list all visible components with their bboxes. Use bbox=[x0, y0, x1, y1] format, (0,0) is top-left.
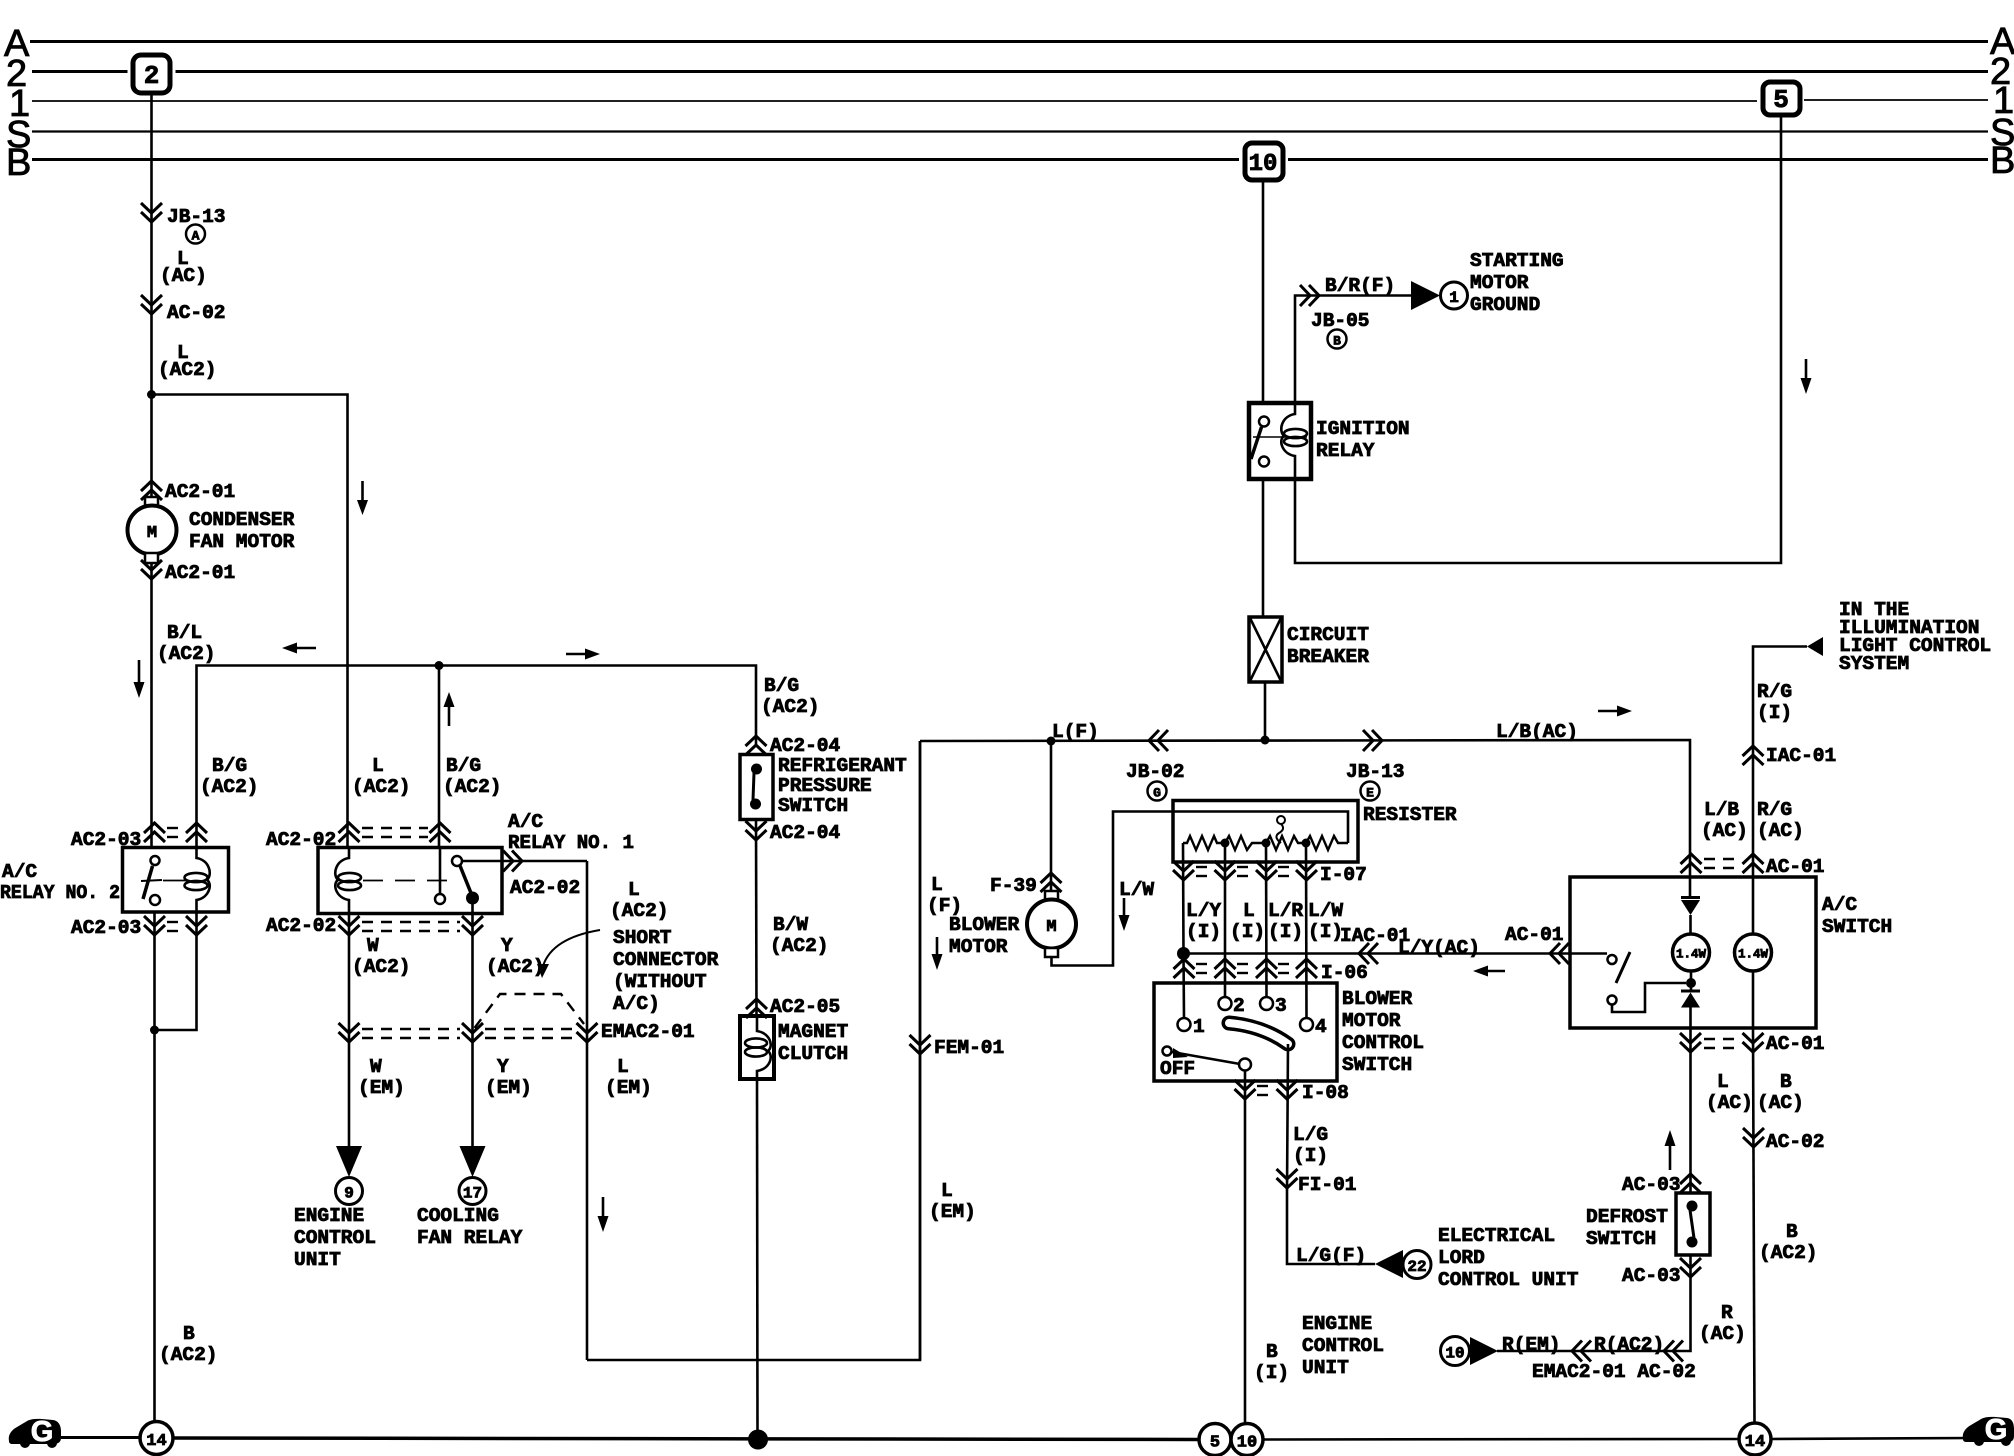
svg-text:L: L bbox=[372, 755, 384, 777]
terminal OFF bbox=[1163, 1047, 1172, 1056]
terminal illumination arrow bbox=[1807, 637, 1823, 656]
svg-text:SHORT: SHORT bbox=[613, 927, 672, 949]
svg-text:CONTROL UNIT: CONTROL UNIT bbox=[1438, 1269, 1579, 1291]
terminal arrow into ECU pin 9 bbox=[336, 1146, 362, 1177]
svg-text:B: B bbox=[1266, 1341, 1278, 1363]
relay ignition box bbox=[1249, 403, 1311, 479]
svg-text:AC-02: AC-02 bbox=[167, 302, 226, 324]
connector AC2-01 lower bbox=[141, 560, 162, 579]
svg-text:W: W bbox=[370, 1056, 382, 1078]
svg-text:L/G: L/G bbox=[1293, 1124, 1328, 1146]
connector AC-03 lower bbox=[1680, 1258, 1701, 1277]
svg-text:(EM): (EM) bbox=[605, 1077, 652, 1099]
flow arrow up beside B/G branch bbox=[448, 705, 451, 726]
svg-text:L/B: L/B bbox=[1704, 799, 1739, 821]
svg-text:MOTOR: MOTOR bbox=[949, 936, 1008, 958]
wire blower motor to resister bbox=[1052, 812, 1349, 966]
connector row I-06 bbox=[1174, 959, 1195, 978]
motor condenser fan bbox=[145, 497, 158, 507]
svg-text:L/Y: L/Y bbox=[1186, 900, 1221, 922]
svg-text:SWITCH: SWITCH bbox=[1822, 916, 1892, 938]
svg-text:3: 3 bbox=[1275, 995, 1287, 1017]
svg-text:(AC2): (AC2) bbox=[1759, 1242, 1818, 1264]
ground connector 5 bbox=[1199, 1424, 1231, 1456]
flow arrow down on L(EM) bbox=[602, 1197, 605, 1218]
switch blower motor control box bbox=[1154, 983, 1337, 1081]
svg-text:EMAC2-01: EMAC2-01 bbox=[601, 1021, 695, 1043]
svg-text:AC-01: AC-01 bbox=[1505, 924, 1564, 946]
node B circled bbox=[1328, 330, 1347, 349]
svg-text:MOTOR: MOTOR bbox=[1342, 1010, 1401, 1032]
svg-text:I-07: I-07 bbox=[1320, 864, 1367, 886]
ground symbol right bbox=[1963, 1414, 2014, 1446]
svg-text:L: L bbox=[617, 1056, 629, 1078]
svg-text:FI-01: FI-01 bbox=[1298, 1174, 1357, 1196]
wire B(AC)/B(AC2) down to ground bbox=[1753, 1028, 1755, 1423]
svg-text:FAN RELAY: FAN RELAY bbox=[417, 1227, 523, 1249]
relay no.1 contact NC bbox=[435, 894, 445, 904]
ground connector 14 right bbox=[1739, 1423, 1771, 1455]
svg-text:RELAY: RELAY bbox=[1316, 440, 1375, 462]
svg-text:G: G bbox=[1985, 1414, 2008, 1446]
connector AC2-04 lower bbox=[746, 821, 767, 840]
svg-text:AC-01: AC-01 bbox=[1766, 1033, 1825, 1055]
motor blower bbox=[1045, 891, 1058, 900]
wire B/R(F) coil to starting motor ground bbox=[1295, 296, 1411, 404]
svg-text:A/C: A/C bbox=[1822, 894, 1857, 916]
svg-text:MAGNET: MAGNET bbox=[778, 1021, 849, 1043]
svg-text:1: 1 bbox=[1193, 1016, 1205, 1038]
svg-text:FEM-01: FEM-01 bbox=[934, 1037, 1004, 1059]
svg-text:CONTROL: CONTROL bbox=[294, 1227, 376, 1249]
svg-text:BLOWER: BLOWER bbox=[1342, 988, 1413, 1010]
wire main horizontal L(F)/L-B(AC) bbox=[920, 740, 1690, 877]
relay no.1 coil bbox=[335, 848, 349, 914]
terminal 1 bbox=[1178, 1018, 1191, 1031]
svg-text:CONTROL: CONTROL bbox=[1342, 1032, 1424, 1054]
flow arrow left on L/Y(AC) bbox=[1486, 970, 1505, 973]
svg-text:G: G bbox=[31, 1416, 54, 1448]
wire W(AC2) coil down bbox=[348, 914, 351, 1147]
terminal starting motor ground bbox=[1411, 281, 1440, 310]
switch contact A/C bbox=[1608, 955, 1617, 964]
node G circled bbox=[1148, 782, 1167, 801]
svg-text:(EM): (EM) bbox=[485, 1077, 532, 1099]
svg-text:B: B bbox=[1990, 140, 2014, 182]
relay no.1 contact NO bbox=[466, 892, 479, 905]
terminal arrow into cooling fan relay pin 17 bbox=[460, 1146, 486, 1177]
switch A/C box bbox=[1570, 877, 1816, 1028]
svg-text:CLUTCH: CLUTCH bbox=[778, 1043, 848, 1065]
svg-text:(AC2): (AC2) bbox=[761, 696, 820, 718]
relay no.1 switch common bbox=[452, 856, 462, 866]
svg-text:EMAC2-01 AC-02: EMAC2-01 AC-02 bbox=[1532, 1361, 1696, 1383]
svg-text:ENGINE: ENGINE bbox=[294, 1205, 364, 1227]
svg-text:REFRIGERANT: REFRIGERANT bbox=[778, 755, 907, 777]
svg-text:B/L: B/L bbox=[167, 622, 202, 644]
svg-text:B: B bbox=[1786, 1221, 1798, 1243]
svg-text:AC2-01: AC2-01 bbox=[165, 562, 235, 584]
resister output wires bbox=[1182, 843, 1185, 954]
node A circled bbox=[186, 225, 205, 244]
relay no.1 mech link bbox=[363, 880, 452, 882]
svg-text:(AC): (AC) bbox=[1701, 820, 1748, 842]
svg-text:(AC2): (AC2) bbox=[486, 956, 545, 978]
wire ignition relay to circuit breaker bbox=[1262, 479, 1265, 617]
wire R/G(I) from illumination system bbox=[1753, 647, 1807, 878]
svg-text:(WITHOUT: (WITHOUT bbox=[613, 971, 707, 993]
svg-text:CIRCUIT: CIRCUIT bbox=[1287, 624, 1369, 646]
svg-text:(AC2): (AC2) bbox=[352, 956, 411, 978]
wire L(AC) from fuse 2 down bbox=[150, 94, 153, 395]
bus line A bbox=[30, 40, 1988, 43]
svg-text:SWITCH: SWITCH bbox=[1342, 1054, 1412, 1076]
wire L(AC) down to defrost bbox=[1689, 1028, 1692, 1193]
svg-text:CONDENSER: CONDENSER bbox=[189, 509, 295, 531]
svg-text:GROUND: GROUND bbox=[1470, 294, 1540, 316]
svg-text:L/W: L/W bbox=[1308, 900, 1343, 922]
svg-text:JB-13: JB-13 bbox=[1346, 761, 1405, 783]
svg-text:L/R: L/R bbox=[1268, 900, 1303, 922]
connector FEM-01 bbox=[910, 1035, 931, 1054]
terminal 2 bbox=[1219, 997, 1232, 1010]
wire L(AC) through switch bbox=[1689, 877, 1692, 897]
bus line B bbox=[32, 158, 1239, 161]
svg-text:SWITCH: SWITCH bbox=[1586, 1228, 1656, 1250]
ignition relay mech link bbox=[1253, 436, 1307, 438]
svg-text:(I): (I) bbox=[1254, 1362, 1289, 1384]
svg-text:(EM): (EM) bbox=[358, 1077, 405, 1099]
switch refrigerant pressure bbox=[740, 755, 773, 820]
wire B/G(AC2) down to relay no.1 bbox=[438, 666, 441, 848]
svg-text:B/G: B/G bbox=[764, 675, 799, 697]
svg-text:2: 2 bbox=[144, 61, 160, 91]
svg-text:AC2-01: AC2-01 bbox=[165, 481, 235, 503]
svg-text:AC-02: AC-02 bbox=[1766, 1131, 1825, 1153]
svg-text:AC2-02: AC2-02 bbox=[266, 915, 336, 937]
node junction L/Y(AC) bbox=[1177, 947, 1190, 960]
connector AC2-05 bbox=[746, 999, 767, 1018]
wire B(AC2) down to ground bbox=[153, 1030, 156, 1422]
svg-text:L(F): L(F) bbox=[1052, 721, 1099, 743]
connector IAC-01 bbox=[1743, 746, 1764, 765]
svg-text:B/W: B/W bbox=[773, 914, 808, 936]
svg-text:AC2-05: AC2-05 bbox=[770, 996, 840, 1018]
node junction breaker bbox=[1261, 736, 1270, 745]
svg-text:L/B(AC): L/B(AC) bbox=[1496, 721, 1578, 743]
flow arrow right on main bbox=[1598, 710, 1619, 713]
svg-text:(I): (I) bbox=[1308, 921, 1343, 943]
connector JB-13 (A) bbox=[141, 203, 162, 222]
ground connector 10 bbox=[1231, 1424, 1263, 1456]
svg-text:CONTROL: CONTROL bbox=[1302, 1335, 1384, 1357]
connector row EMAC2-01 bbox=[339, 1023, 360, 1042]
flow arrow down beside L(AC2) bbox=[361, 481, 364, 502]
svg-text:AC2-04: AC2-04 bbox=[770, 735, 841, 757]
svg-text:RESISTER: RESISTER bbox=[1363, 804, 1457, 826]
relay no.2 mech link bbox=[163, 880, 187, 882]
diode D1 bbox=[1681, 896, 1700, 899]
relay no.2 box bbox=[123, 848, 229, 913]
svg-text:W: W bbox=[367, 935, 379, 957]
svg-text:L: L bbox=[628, 879, 640, 901]
svg-text:(AC2): (AC2) bbox=[157, 643, 216, 665]
svg-text:B: B bbox=[183, 1323, 195, 1345]
connector AC-03 upper bbox=[1680, 1174, 1701, 1193]
svg-text:(AC2): (AC2) bbox=[443, 776, 502, 798]
relay no.1 box bbox=[318, 848, 502, 914]
connector JB-13 main bbox=[1363, 730, 1382, 751]
connector chevrons on R wire bbox=[1572, 1341, 1591, 1362]
connector 10 on bus B bbox=[1245, 143, 1283, 180]
svg-text:(AC2): (AC2) bbox=[610, 900, 669, 922]
svg-text:I-06: I-06 bbox=[1321, 962, 1368, 984]
svg-text:(AC): (AC) bbox=[160, 265, 207, 287]
wire short connector dashed bbox=[475, 994, 585, 1028]
svg-text:A/C: A/C bbox=[2, 861, 37, 883]
wire coil return to fuse 5 bbox=[1295, 115, 1781, 563]
svg-text:2: 2 bbox=[1233, 995, 1245, 1017]
svg-text:1.4W: 1.4W bbox=[1738, 948, 1769, 962]
wire L/Y(AC) to A/C switch bbox=[1184, 952, 1608, 955]
svg-text:17: 17 bbox=[463, 1185, 482, 1203]
svg-text:UNIT: UNIT bbox=[1302, 1357, 1349, 1379]
thermal fuse tap bbox=[1277, 816, 1285, 824]
wire L(F)/L(EM) left riser bbox=[919, 741, 922, 1360]
svg-text:10: 10 bbox=[1249, 151, 1278, 178]
svg-text:FAN MOTOR: FAN MOTOR bbox=[189, 531, 295, 553]
wire L/G(F) to electrical load control unit bbox=[1287, 1191, 1375, 1264]
wire relay1 switch output right bbox=[462, 860, 587, 863]
svg-text:RELAY NO. 1: RELAY NO. 1 bbox=[508, 832, 634, 854]
svg-text:Y: Y bbox=[501, 935, 513, 957]
switch lever bbox=[1172, 1052, 1240, 1064]
node junction B/G to relay1 bbox=[435, 661, 444, 670]
svg-text:R/G: R/G bbox=[1757, 799, 1792, 821]
svg-text:(I): (I) bbox=[1186, 921, 1221, 943]
connector AC2-01 upper bbox=[141, 481, 162, 500]
wire B(AC) through switch lamp2 bbox=[1752, 877, 1755, 934]
flow arrow up beside defrost bbox=[1669, 1144, 1672, 1170]
svg-text:LORD: LORD bbox=[1438, 1247, 1485, 1269]
wire Y(AC2) contact down bbox=[471, 898, 474, 1146]
svg-text:STARTING: STARTING bbox=[1470, 250, 1564, 272]
svg-text:R(AC2): R(AC2) bbox=[1594, 1334, 1664, 1356]
svg-text:(AC): (AC) bbox=[1757, 820, 1804, 842]
svg-text:14: 14 bbox=[146, 1432, 166, 1451]
svg-text:(AC2): (AC2) bbox=[159, 1344, 218, 1366]
wire L(AC2) down to condenser fan motor bbox=[150, 395, 153, 507]
svg-text:I-08: I-08 bbox=[1302, 1082, 1349, 1104]
svg-text:L: L bbox=[931, 874, 943, 896]
ignition relay coil bbox=[1281, 403, 1295, 479]
node junction below lamp bbox=[1690, 971, 1693, 991]
resistor chain bbox=[1183, 836, 1348, 850]
annotation arrow short connector bbox=[543, 930, 600, 966]
svg-text:10: 10 bbox=[1237, 1434, 1257, 1453]
svg-text:COOLING: COOLING bbox=[417, 1205, 499, 1227]
terminal 4 bbox=[1300, 1018, 1313, 1031]
svg-text:A/C): A/C) bbox=[613, 993, 660, 1015]
bottom bus wire bbox=[61, 1436, 140, 1439]
svg-text:(I): (I) bbox=[1230, 921, 1265, 943]
svg-text:9: 9 bbox=[344, 1185, 354, 1203]
wire B(I) from lever pivot bbox=[1244, 1070, 1247, 1422]
bus line 2 bbox=[32, 70, 128, 73]
svg-text:(AC2): (AC2) bbox=[770, 935, 829, 957]
svg-text:M: M bbox=[147, 524, 157, 543]
svg-text:RELAY NO. 2: RELAY NO. 2 bbox=[0, 882, 120, 904]
svg-text:1.4W: 1.4W bbox=[1676, 948, 1707, 962]
ground symbol left bbox=[9, 1416, 61, 1448]
svg-text:AC2-03: AC2-03 bbox=[71, 917, 141, 939]
svg-text:B/G: B/G bbox=[212, 755, 247, 777]
terminal 3 bbox=[1260, 997, 1273, 1010]
resistor junction nodes bbox=[1221, 839, 1230, 848]
svg-text:1: 1 bbox=[1449, 289, 1459, 307]
svg-text:(I): (I) bbox=[1293, 1145, 1328, 1167]
terminal ECU pin 10 output bbox=[1441, 1337, 1470, 1366]
connector row AC-01 lower bbox=[1680, 1033, 1701, 1052]
svg-text:IGNITION: IGNITION bbox=[1316, 418, 1410, 440]
svg-text:5: 5 bbox=[1773, 85, 1789, 115]
bus line S bbox=[32, 130, 1988, 132]
svg-text:AC2-02: AC2-02 bbox=[510, 877, 580, 899]
svg-text:L/W: L/W bbox=[1119, 879, 1154, 901]
magnet clutch bbox=[740, 1016, 774, 1079]
fuse 2 bbox=[133, 55, 170, 93]
wire bus B to ignition relay bbox=[1262, 180, 1265, 403]
svg-text:CONNECTOR: CONNECTOR bbox=[613, 949, 719, 971]
svg-text:A/C: A/C bbox=[508, 811, 543, 833]
svg-text:JB-05: JB-05 bbox=[1311, 310, 1370, 332]
flow arrow down B/L bbox=[138, 660, 141, 684]
svg-text:(I): (I) bbox=[1757, 702, 1792, 724]
svg-text:SWITCH: SWITCH bbox=[778, 795, 848, 817]
wire L(AC2) branch to A/C relay no.1 bbox=[152, 395, 348, 848]
svg-text:ELECTRICAL: ELECTRICAL bbox=[1438, 1225, 1555, 1247]
bus line 1 bbox=[32, 100, 1757, 102]
svg-text:L/Y(AC): L/Y(AC) bbox=[1398, 937, 1480, 959]
svg-text:5: 5 bbox=[1210, 1434, 1220, 1453]
svg-text:R: R bbox=[1721, 1302, 1733, 1324]
relay no.2 coil bbox=[197, 848, 210, 913]
svg-text:DEFROST: DEFROST bbox=[1586, 1206, 1668, 1228]
ground connector 14 left bbox=[140, 1422, 173, 1455]
wire relay2 outputs join bbox=[153, 912, 156, 1030]
resister box bbox=[1173, 801, 1358, 863]
svg-text:L: L bbox=[941, 1180, 953, 1202]
flow arrow down beside fuse5 wire bbox=[1805, 359, 1808, 380]
wire L(EM) clutch to ground bus bbox=[756, 1079, 759, 1440]
svg-text:Y: Y bbox=[497, 1056, 509, 1078]
svg-text:M: M bbox=[1046, 918, 1056, 937]
svg-text:B/G: B/G bbox=[446, 755, 481, 777]
svg-text:L/G(F): L/G(F) bbox=[1296, 1245, 1366, 1267]
wire B/L(AC2) motor to relay no.2 bbox=[150, 563, 153, 848]
wire L(F) down to blower motor bbox=[1050, 741, 1053, 899]
svg-text:R(EM): R(EM) bbox=[1502, 1334, 1561, 1356]
relay no.2 switch bbox=[151, 856, 160, 865]
diode D2 bbox=[1681, 990, 1700, 993]
node E circled bbox=[1361, 782, 1380, 801]
svg-text:4: 4 bbox=[1315, 1016, 1327, 1038]
svg-text:ENGINE: ENGINE bbox=[1302, 1313, 1372, 1335]
connector row I-07 bbox=[1173, 861, 1194, 880]
svg-text:22: 22 bbox=[1407, 1258, 1426, 1276]
ignition relay switch bbox=[1259, 417, 1269, 427]
wire R(AC) down and left to ECU pin 10 bbox=[1497, 1255, 1691, 1351]
svg-text:E: E bbox=[1366, 786, 1374, 801]
svg-text:(EM): (EM) bbox=[929, 1201, 976, 1223]
svg-text:(AC): (AC) bbox=[1757, 1092, 1804, 1114]
node junction L(F) bbox=[1047, 737, 1056, 746]
terminal electrical load control unit pin 22 bbox=[1375, 1250, 1403, 1278]
svg-text:L: L bbox=[1243, 900, 1255, 922]
flow arrow left on B/G bbox=[295, 647, 316, 650]
svg-text:SYSTEM: SYSTEM bbox=[1839, 653, 1909, 675]
connector AC2-04 upper bbox=[746, 736, 767, 755]
svg-text:AC-03: AC-03 bbox=[1622, 1174, 1681, 1196]
svg-text:AC-01: AC-01 bbox=[1766, 856, 1825, 878]
flow arrow down on L(F) riser bbox=[936, 937, 939, 956]
svg-text:(AC): (AC) bbox=[1699, 1323, 1746, 1345]
svg-text:(F): (F) bbox=[927, 895, 962, 917]
circuit breaker bbox=[1249, 617, 1282, 682]
svg-text:B: B bbox=[1780, 1071, 1792, 1093]
lamp indicator 1.4W right bbox=[1735, 934, 1772, 971]
connector AC-02 on B bbox=[1743, 1128, 1764, 1147]
connector row AC-01 upper bbox=[1681, 854, 1702, 873]
svg-text:(AC2): (AC2) bbox=[200, 776, 259, 798]
svg-text:(AC): (AC) bbox=[1706, 1092, 1753, 1114]
svg-text:B/R(F): B/R(F) bbox=[1325, 275, 1395, 297]
svg-text:AC2-04: AC2-04 bbox=[770, 822, 841, 844]
svg-text:(I): (I) bbox=[1268, 921, 1303, 943]
switch defrost bbox=[1676, 1193, 1710, 1255]
connector row I-08 bbox=[1235, 1080, 1256, 1099]
wire L/Y(I) to switch t1 bbox=[1182, 954, 1185, 1020]
wire L(EM) bottom run bbox=[587, 741, 920, 1360]
switch wiper crescent bbox=[1229, 1023, 1288, 1044]
svg-text:F-39: F-39 bbox=[990, 875, 1037, 897]
svg-text:10: 10 bbox=[1445, 1345, 1464, 1363]
svg-text:PRESSURE: PRESSURE bbox=[778, 775, 872, 797]
connector AC-02 bbox=[141, 295, 162, 314]
lamp indicator 1.4W left bbox=[1673, 934, 1710, 971]
wire L/G(I) from crescent bbox=[1287, 1044, 1288, 1191]
svg-text:(AC2): (AC2) bbox=[352, 776, 411, 798]
svg-text:L: L bbox=[1717, 1071, 1729, 1093]
node junction clutch to bus bbox=[748, 1430, 768, 1450]
svg-text:AC-03: AC-03 bbox=[1622, 1265, 1681, 1287]
svg-text:BREAKER: BREAKER bbox=[1287, 646, 1369, 668]
svg-text:(AC2): (AC2) bbox=[158, 359, 217, 381]
flow arrow right on B/G bbox=[566, 653, 587, 656]
svg-text:R/G: R/G bbox=[1757, 681, 1792, 703]
fuse 5 bbox=[1763, 82, 1800, 115]
svg-text:B: B bbox=[1333, 334, 1341, 349]
svg-text:UNIT: UNIT bbox=[294, 1249, 341, 1271]
connector FI-01 bbox=[1277, 1169, 1298, 1188]
svg-text:BLOWER: BLOWER bbox=[949, 914, 1020, 936]
connector F-39 bbox=[1041, 873, 1062, 892]
svg-text:14: 14 bbox=[1745, 1433, 1765, 1452]
wire B/G(AC2) horizontal main bbox=[197, 666, 757, 848]
wire B/W(AC2) down bbox=[755, 820, 758, 1016]
connector JB-02 bbox=[1149, 730, 1168, 751]
svg-text:OFF: OFF bbox=[1160, 1058, 1195, 1080]
